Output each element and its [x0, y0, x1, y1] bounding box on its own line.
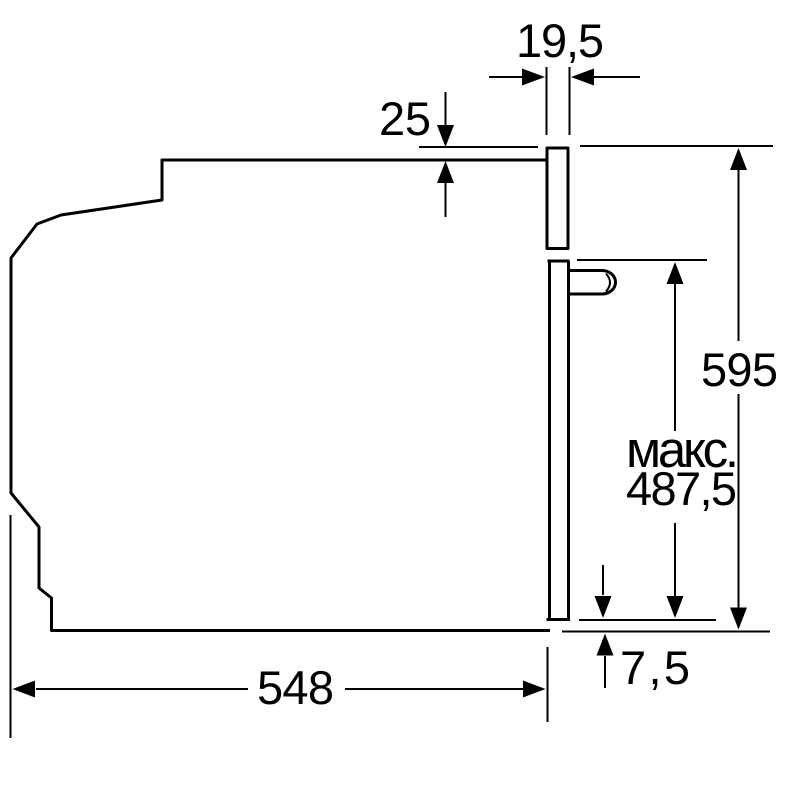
- svg-text:595: 595: [701, 343, 778, 396]
- svg-text:7,5: 7,5: [620, 641, 690, 694]
- svg-text:25: 25: [379, 92, 431, 145]
- svg-text:19,5: 19,5: [516, 14, 604, 67]
- svg-text:548: 548: [257, 661, 334, 714]
- svg-text:487,5: 487,5: [626, 462, 737, 515]
